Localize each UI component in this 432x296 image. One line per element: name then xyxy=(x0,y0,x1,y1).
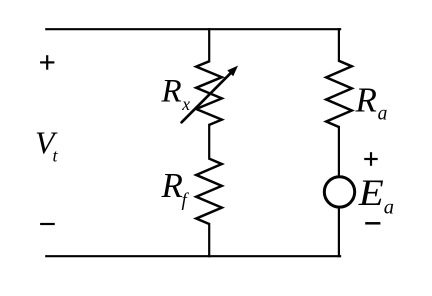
svg-text:R: R xyxy=(355,80,377,119)
wire middle branch top xyxy=(208,29,210,61)
variable resistor arrow head xyxy=(227,66,238,77)
resistor Rf zigzag xyxy=(196,159,222,224)
svg-text:a: a xyxy=(378,104,388,125)
minus sign Ea xyxy=(365,222,380,225)
svg-text:x: x xyxy=(181,94,190,114)
svg-text:R: R xyxy=(161,166,183,205)
minus sign left terminal xyxy=(40,223,55,225)
svg-text:f: f xyxy=(182,190,190,211)
wire bottom horizontal xyxy=(46,255,340,257)
wire between Rx and Rf xyxy=(208,125,210,159)
wire right branch top xyxy=(338,29,340,61)
svg-text:a: a xyxy=(384,196,394,218)
wire below Ea xyxy=(338,208,340,257)
plus sign Ea xyxy=(364,158,378,160)
svg-text:t: t xyxy=(53,146,59,166)
resistor Rx zigzag xyxy=(196,61,222,125)
wire below Rf xyxy=(208,224,210,256)
variable resistor arrow shaft xyxy=(182,73,232,123)
plus sign left terminal xyxy=(40,61,54,63)
wire top horizontal xyxy=(46,28,340,30)
svg-text:E: E xyxy=(358,173,384,214)
voltage source Ea circle xyxy=(324,177,354,207)
resistor Ra zigzag xyxy=(326,61,352,127)
wire between Ra and Ea xyxy=(338,127,340,177)
svg-text:R: R xyxy=(161,73,182,109)
